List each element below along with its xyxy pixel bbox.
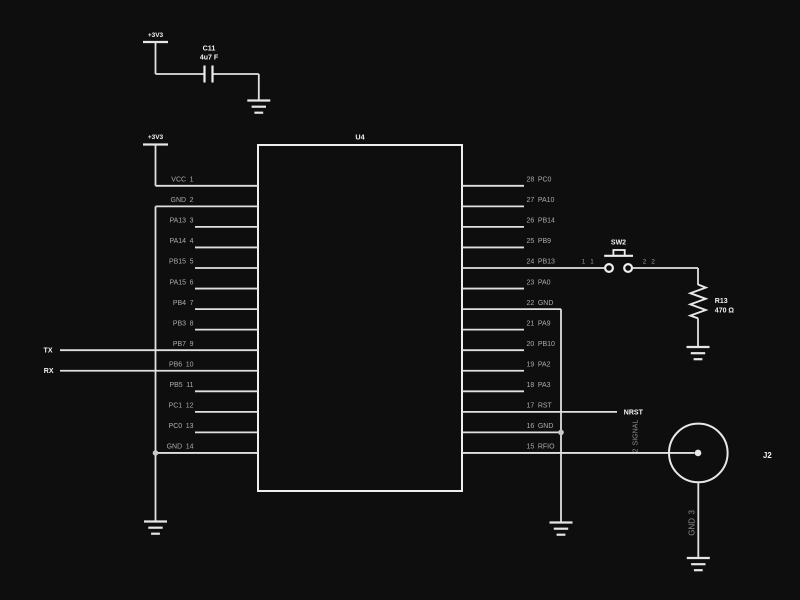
svg-text:PB5 11: PB5 11 [169, 382, 193, 389]
svg-text:20 PB10: 20 PB10 [527, 341, 556, 348]
svg-text:27 PA10: 27 PA10 [527, 197, 555, 204]
svg-text:1: 1 [582, 258, 586, 265]
svg-text:GND 2: GND 2 [171, 197, 194, 204]
svg-text:19 PA2: 19 PA2 [527, 361, 551, 368]
svg-text:+3V3: +3V3 [148, 32, 164, 39]
svg-text:16 GND: 16 GND [527, 423, 554, 430]
svg-text:470 Ω: 470 Ω [715, 307, 735, 314]
svg-text:18 PA3: 18 PA3 [527, 382, 551, 389]
svg-text:PA13 3: PA13 3 [169, 218, 193, 225]
svg-text:PB3 8: PB3 8 [173, 320, 194, 327]
svg-text:23 PA0: 23 PA0 [527, 279, 551, 286]
svg-text:15 RFIO: 15 RFIO [527, 444, 556, 451]
svg-text:PA14 4: PA14 4 [169, 238, 193, 245]
svg-text:2: 2 [651, 258, 655, 265]
svg-text:RX: RX [44, 368, 54, 375]
svg-text:4u7 F: 4u7 F [200, 54, 219, 61]
svg-text:26 PB14: 26 PB14 [527, 218, 556, 225]
svg-text:1: 1 [590, 258, 594, 265]
svg-text:PB15 5: PB15 5 [169, 259, 194, 266]
svg-text:GND 3: GND 3 [687, 510, 696, 536]
svg-text:VCC 1: VCC 1 [171, 177, 193, 184]
svg-text:C11: C11 [203, 44, 216, 53]
svg-text:PB7 9: PB7 9 [173, 341, 194, 348]
svg-text:GND 14: GND 14 [167, 444, 194, 451]
svg-text:28 PC0: 28 PC0 [527, 177, 552, 184]
svg-text:25 PB9: 25 PB9 [527, 238, 552, 245]
svg-text:21 PA9: 21 PA9 [527, 320, 551, 327]
svg-text:PC1 12: PC1 12 [169, 403, 194, 410]
svg-text:R13: R13 [715, 298, 728, 305]
svg-text:TX: TX [44, 348, 53, 355]
svg-text:J2: J2 [763, 451, 772, 460]
svg-text:NRST: NRST [624, 409, 644, 416]
svg-text:PB4 7: PB4 7 [173, 300, 194, 307]
svg-text:U4: U4 [355, 133, 364, 142]
svg-text:2: 2 [643, 258, 647, 265]
svg-text:PA15 6: PA15 6 [169, 279, 193, 286]
svg-text:22 GND: 22 GND [527, 300, 554, 307]
svg-text:SW2: SW2 [611, 240, 626, 247]
svg-text:2 SIGNAL: 2 SIGNAL [632, 420, 639, 453]
svg-text:+3V3: +3V3 [148, 134, 164, 141]
svg-text:PB6 10: PB6 10 [169, 361, 194, 368]
svg-text:24 PB13: 24 PB13 [527, 259, 556, 266]
svg-text:17 RST: 17 RST [527, 403, 553, 410]
svg-text:PC0 13: PC0 13 [169, 423, 194, 430]
